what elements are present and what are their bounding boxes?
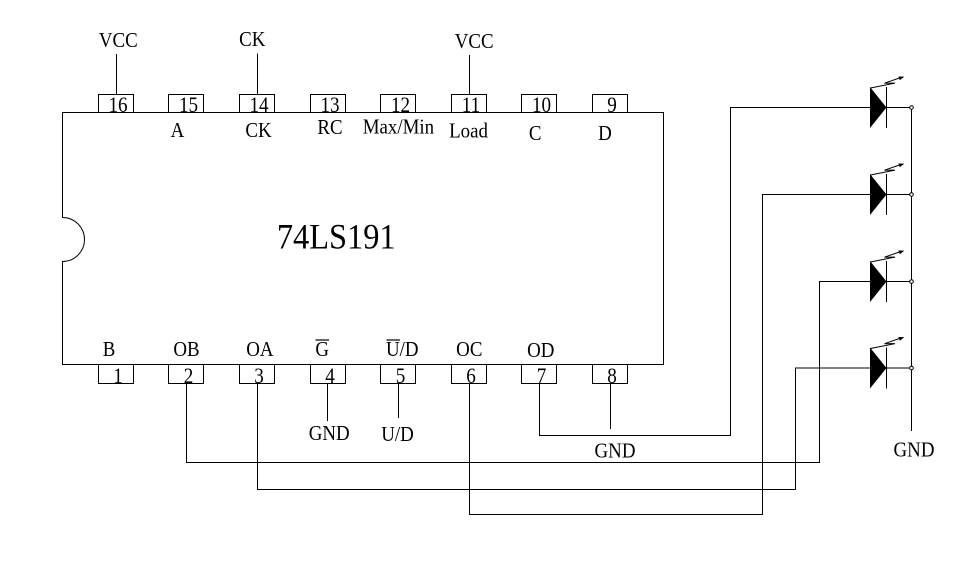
wire pin 6 (OC) to LED D2 anode bbox=[470, 195, 871, 515]
net U/D stub wire at pin 5 bbox=[398, 384, 400, 419]
pin 8 box bbox=[593, 365, 628, 384]
pin 15 box bbox=[169, 95, 204, 113]
svg-text:9: 9 bbox=[607, 94, 617, 117]
junction node at LED D2 cathode bbox=[910, 193, 914, 197]
svg-text:Load: Load bbox=[449, 120, 488, 143]
wire pin 3 (OA) to LED D4 anode bbox=[258, 368, 871, 490]
svg-text:11: 11 bbox=[462, 94, 480, 117]
net VCC at pin 11: wire bbox=[469, 55, 471, 95]
LED D4 bbox=[870, 337, 910, 389]
pin 6 box bbox=[452, 365, 487, 384]
junction node at LED D4 cathode bbox=[910, 366, 914, 370]
svg-text:7: 7 bbox=[537, 365, 547, 388]
svg-text:2: 2 bbox=[184, 365, 194, 388]
svg-text:4: 4 bbox=[325, 365, 335, 388]
svg-text:VCC: VCC bbox=[455, 30, 494, 53]
pin 5 name label U-bar/D bbox=[386, 338, 419, 361]
svg-text:GND: GND bbox=[309, 422, 350, 445]
svg-text:10: 10 bbox=[532, 94, 551, 117]
svg-text:OA: OA bbox=[246, 338, 274, 361]
wire pin 7 (OD) to LED D1 anode bbox=[540, 108, 871, 436]
svg-text:D: D bbox=[598, 122, 612, 145]
svg-text:CK: CK bbox=[245, 119, 272, 142]
pin 9 box bbox=[593, 95, 628, 113]
svg-text:5: 5 bbox=[396, 365, 406, 388]
junction node at LED D1 cathode bbox=[910, 106, 914, 110]
svg-text:OC: OC bbox=[456, 338, 482, 361]
svg-text:G: G bbox=[315, 338, 329, 361]
svg-text:8: 8 bbox=[607, 365, 617, 388]
pin 3 box bbox=[240, 365, 275, 384]
svg-text:OB: OB bbox=[173, 338, 199, 361]
pin 12 box bbox=[381, 95, 416, 113]
pin 10 box bbox=[522, 95, 557, 113]
ground stub wire at pin 8 bbox=[610, 384, 612, 430]
pin 11 box bbox=[452, 95, 487, 113]
ground stub wire at pin 4 bbox=[327, 384, 329, 422]
svg-text:16: 16 bbox=[108, 94, 127, 117]
svg-text:13: 13 bbox=[320, 94, 339, 117]
svg-text:12: 12 bbox=[391, 94, 410, 117]
svg-text:1: 1 bbox=[113, 365, 123, 388]
LED D3 bbox=[870, 251, 910, 303]
svg-text:VCC: VCC bbox=[99, 29, 138, 52]
pin 4 box bbox=[311, 365, 346, 384]
svg-text:CK: CK bbox=[239, 28, 266, 51]
wire pin 2 (OB) to LED D3 anode bbox=[187, 282, 871, 463]
net CK at pin 14: wire bbox=[257, 54, 259, 95]
IC U1 74LS191 body outline with pin-1 notch bbox=[63, 113, 664, 365]
svg-text:74LS191: 74LS191 bbox=[277, 217, 396, 257]
svg-text:GND: GND bbox=[894, 439, 935, 462]
svg-text:6: 6 bbox=[466, 365, 476, 388]
pin 7 box bbox=[522, 365, 557, 384]
pin 16 box bbox=[99, 95, 134, 113]
svg-text:U/D: U/D bbox=[386, 338, 419, 361]
net VCC at pin 16: wire bbox=[116, 54, 118, 95]
pin 14 box bbox=[240, 95, 275, 113]
svg-text:B: B bbox=[103, 338, 116, 361]
LED cathode bus wire (right rail) bbox=[911, 108, 913, 432]
svg-text:3: 3 bbox=[254, 365, 264, 388]
pin 5 box bbox=[381, 365, 416, 384]
LED D2 bbox=[870, 164, 910, 216]
junction node at LED D3 cathode bbox=[910, 280, 914, 284]
pin 2 box bbox=[169, 365, 204, 384]
pin 4 name label G-bar bbox=[315, 338, 329, 361]
svg-text:U/D: U/D bbox=[381, 423, 414, 446]
svg-text:OD: OD bbox=[527, 339, 554, 362]
svg-text:15: 15 bbox=[179, 94, 198, 117]
svg-text:C: C bbox=[529, 122, 542, 145]
pin 13 box bbox=[311, 95, 346, 113]
svg-text:14: 14 bbox=[249, 94, 268, 117]
svg-text:RC: RC bbox=[317, 116, 342, 139]
svg-text:Max/Min: Max/Min bbox=[363, 116, 434, 139]
LED D1 bbox=[870, 77, 910, 129]
svg-text:A: A bbox=[171, 119, 185, 142]
svg-text:GND: GND bbox=[595, 440, 636, 463]
pin 1 box bbox=[99, 365, 134, 384]
